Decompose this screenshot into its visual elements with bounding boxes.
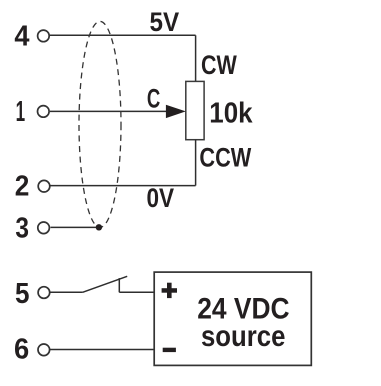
terminal 6 circle bbox=[38, 344, 50, 356]
svg-text:CW: CW bbox=[201, 50, 237, 80]
svg-text:1: 1 bbox=[16, 96, 26, 128]
svg-text:source: source bbox=[201, 320, 285, 353]
svg-text:0V: 0V bbox=[147, 183, 175, 213]
svg-text:3: 3 bbox=[15, 212, 29, 244]
wire vertical 5V down to potentiometer top bbox=[195, 35, 197, 81]
wiper arrowhead into potentiometer bbox=[166, 105, 186, 118]
cable shield dashed ellipse bbox=[79, 21, 121, 227]
svg-text:4: 4 bbox=[14, 21, 29, 53]
24 VDC source box bbox=[154, 272, 311, 365]
terminal 1 circle bbox=[38, 106, 50, 118]
svg-text:5: 5 bbox=[15, 278, 30, 310]
svg-text:CCW: CCW bbox=[199, 143, 251, 173]
switch fixed contact stub bbox=[118, 278, 120, 292]
svg-text:C: C bbox=[147, 83, 160, 113]
switch S1 blade bbox=[83, 276, 128, 292]
svg-text:6: 6 bbox=[14, 334, 29, 366]
wire terminal 4 to 5V corner bbox=[49, 34, 195, 36]
svg-text:10k: 10k bbox=[209, 98, 252, 130]
terminal 2 circle bbox=[38, 180, 50, 192]
terminal 4 circle bbox=[38, 30, 50, 42]
terminal 5 circle bbox=[38, 287, 50, 299]
terminal 3 circle bbox=[38, 222, 50, 234]
svg-text:2: 2 bbox=[15, 171, 30, 203]
wire terminal 5 to switch bbox=[50, 291, 83, 293]
shield junction dot bbox=[96, 224, 102, 230]
wire switch to source plus bbox=[119, 291, 154, 293]
minus symbol bbox=[163, 348, 176, 352]
wire terminal 3 to shield bbox=[51, 226, 98, 228]
plus symbol bbox=[162, 283, 177, 298]
wire potentiometer bottom down to 0V corner bbox=[195, 140, 197, 186]
wire terminal 6 to source minus bbox=[50, 349, 154, 351]
svg-text:5V: 5V bbox=[150, 7, 180, 37]
wire 0V terminal 2 to corner bbox=[50, 185, 196, 187]
wire terminal 1 wiper bbox=[50, 110, 168, 112]
potentiometer R1 body bbox=[186, 81, 204, 139]
